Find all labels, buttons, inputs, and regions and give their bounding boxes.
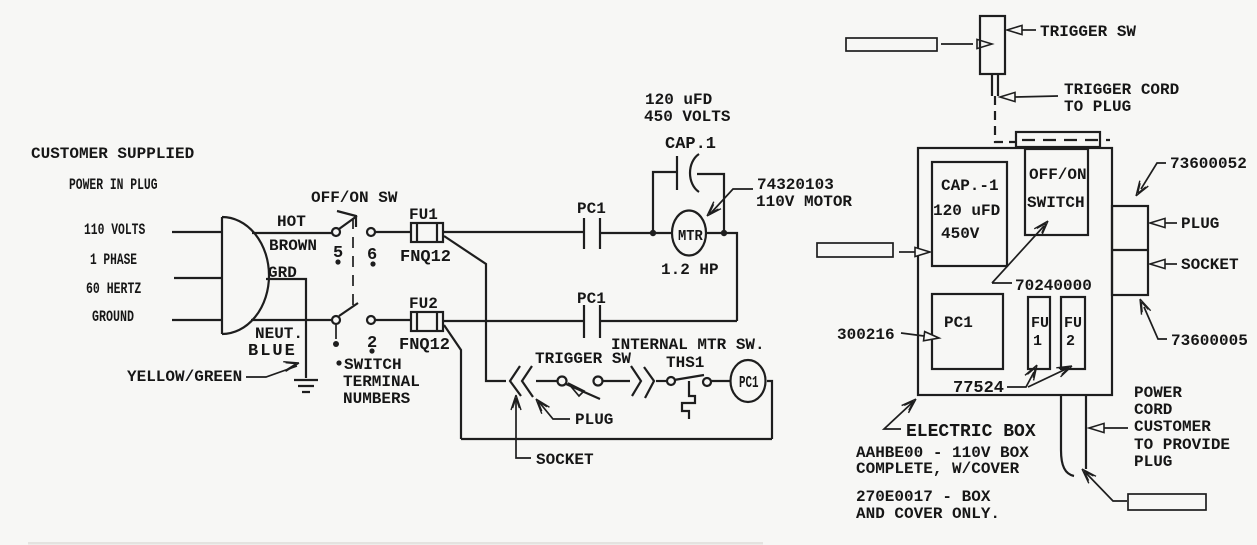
off/on switch box	[1025, 149, 1088, 235]
thermal element THS1	[682, 381, 695, 419]
wire GRD from plug down to ground	[266, 279, 306, 378]
leader SOCKET arrow	[516, 400, 531, 458]
conduit at box top	[1016, 132, 1100, 147]
leader 300216 to pc1 box	[901, 333, 924, 336]
svg-text:OFF/ON: OFF/ON	[1029, 166, 1087, 184]
leader PLUG arrow	[539, 402, 570, 419]
blank reference bar left	[817, 243, 893, 257]
leader bar to trigger switch	[941, 43, 973, 45]
svg-text:74320103: 74320103	[757, 176, 834, 194]
power cord left line	[1061, 395, 1074, 476]
leader TRIGGER SW label	[1007, 25, 1022, 34]
leader bottom bar to cord	[1086, 473, 1127, 501]
svg-text:CUSTOMER: CUSTOMER	[1134, 418, 1211, 436]
scan artifact band	[28, 542, 763, 545]
svg-text:POWER: POWER	[1134, 384, 1182, 402]
switch S1b blade	[339, 303, 358, 316]
wire PC1 lower to return	[600, 320, 737, 322]
svg-text:THS1: THS1	[666, 354, 704, 372]
switch S1a pole HOT circles	[332, 228, 340, 236]
connector plug chevrons	[631, 366, 654, 398]
wire 110V to plug	[172, 231, 222, 233]
node junction left of motor	[650, 230, 656, 236]
pc1 box	[932, 294, 1003, 369]
switch S1b pole NEUT circles	[332, 316, 340, 324]
wire FU2 to PC1 lower row	[443, 320, 584, 322]
leader 77524 to fuses	[1007, 369, 1066, 387]
capacitor PC1 top plates	[584, 218, 600, 249]
trigger cord dashed	[995, 96, 1016, 142]
switch mechanical link dashed	[352, 218, 354, 312]
wire THS1 to PC1	[711, 380, 731, 382]
svg-text:SWITCH: SWITCH	[344, 356, 402, 374]
svg-text:TRIGGER SW: TRIGGER SW	[1040, 23, 1136, 41]
leader 73600005	[1144, 307, 1167, 339]
svg-text:FU: FU	[1031, 315, 1049, 332]
power cord right line	[1085, 395, 1087, 469]
capacitor box CAP.-1	[932, 162, 1007, 266]
conduit dashed centerline	[1022, 139, 1110, 141]
fuse box FU1	[1028, 297, 1050, 369]
svg-text:TERMINAL: TERMINAL	[343, 373, 420, 391]
terminal dot 1	[335, 325, 337, 339]
blank reference bar bottom	[1128, 494, 1206, 510]
svg-text:PC1: PC1	[739, 374, 759, 393]
plug P1 customer power-in plug (D shape)	[222, 217, 269, 334]
leader PLUG right	[1150, 218, 1165, 227]
svg-text:60 HERTZ: 60 HERTZ	[86, 280, 141, 298]
svg-text:CAP.1: CAP.1	[665, 135, 716, 154]
fuse FU1	[411, 223, 443, 242]
leader 70240000 to switch	[992, 226, 1044, 283]
svg-text:TO PROVIDE: TO PROVIDE	[1134, 436, 1230, 454]
capacitor CAP.1 curved plate	[690, 154, 699, 192]
plug/socket block on box right	[1112, 206, 1148, 295]
svg-text:SWITCH: SWITCH	[1027, 194, 1085, 212]
plug/socket divider	[1112, 249, 1148, 251]
capacitor PC1 lower plates	[584, 305, 600, 338]
svg-text:HOT: HOT	[277, 213, 306, 231]
blank reference bar top	[846, 38, 937, 51]
wire CAP.1 right leg	[697, 174, 724, 232]
svg-text:BROWN: BROWN	[269, 237, 317, 255]
svg-text:FNQ12: FNQ12	[400, 248, 451, 267]
svg-text:PC1: PC1	[577, 290, 606, 308]
svg-text:TO PLUG: TO PLUG	[1064, 98, 1131, 116]
svg-text:73600005: 73600005	[1171, 332, 1248, 350]
svg-text:SOCKET: SOCKET	[536, 451, 594, 469]
trigger switch circles	[558, 377, 567, 386]
terminal dot 5	[335, 259, 340, 264]
trigger switch TRIGGER SW body	[980, 16, 1005, 74]
leader 73600052	[1141, 163, 1166, 189]
svg-text:TRIGGER CORD: TRIGGER CORD	[1064, 81, 1179, 99]
svg-text:120 uFD: 120 uFD	[933, 202, 1000, 220]
svg-text:POWER IN PLUG: POWER IN PLUG	[69, 176, 158, 194]
wire bottom rail	[461, 438, 772, 440]
wire HOT from plug to switch	[252, 232, 332, 234]
note SWITCH TERMINAL NUMBERS	[336, 360, 341, 365]
wire NEUT from plug to switch	[251, 319, 332, 321]
svg-text:CAP.-1: CAP.-1	[941, 177, 999, 195]
svg-text:73600052: 73600052	[1170, 155, 1247, 173]
svg-text:450V: 450V	[941, 225, 980, 243]
leader TRIGGER CORD arrow	[1000, 92, 1015, 101]
svg-text:GROUND: GROUND	[92, 308, 134, 326]
thermal switch THS1 circles	[667, 377, 675, 385]
wire ground to plug	[172, 319, 222, 321]
svg-text:OFF/ON SW: OFF/ON SW	[311, 189, 398, 207]
wire trigger to plug chevrons	[603, 380, 630, 382]
fuse FU2	[411, 312, 443, 331]
motor MTR circle	[672, 211, 706, 256]
switch S1a blade	[337, 211, 357, 229]
svg-text:77524: 77524	[953, 379, 1004, 398]
fuse box FU2	[1061, 297, 1085, 369]
terminal dot 6	[370, 261, 375, 266]
svg-text:FU2: FU2	[409, 295, 438, 313]
svg-text:1.2 HP: 1.2 HP	[661, 261, 719, 279]
wire 60Hz to plug	[174, 277, 222, 279]
wire CAP.1 left leg	[653, 172, 676, 232]
svg-text:PLUG: PLUG	[575, 411, 613, 429]
wire branch FU1 to trigger row	[444, 236, 506, 381]
svg-text:PC1: PC1	[944, 314, 973, 332]
connector socket chevrons	[510, 366, 533, 397]
svg-text:SOCKET: SOCKET	[1181, 256, 1239, 274]
electric box outline	[918, 148, 1112, 395]
svg-text:2: 2	[1066, 333, 1075, 350]
wire PC1 to bottom rail	[767, 381, 772, 439]
svg-text:FU: FU	[1064, 315, 1082, 332]
svg-text:AND COVER ONLY.: AND COVER ONLY.	[856, 505, 1000, 523]
trigger switch blade	[566, 384, 600, 399]
svg-text:PC1: PC1	[577, 200, 606, 218]
terminal dot 2	[369, 348, 374, 353]
svg-text:YELLOW/GREEN: YELLOW/GREEN	[127, 368, 242, 386]
svg-text:NEUT.: NEUT.	[255, 325, 303, 343]
wire FU1 to PC1 top row	[443, 231, 584, 233]
leader bar to cap box	[899, 251, 915, 253]
svg-text:270E0017 - BOX: 270E0017 - BOX	[856, 488, 991, 506]
svg-text:110 VOLTS: 110 VOLTS	[84, 221, 145, 239]
node junction right of motor	[721, 230, 727, 236]
svg-text:FU1: FU1	[409, 206, 438, 224]
capacitor CAP.1 straight plate	[676, 156, 678, 190]
wire chevron to trigger switch	[536, 380, 558, 382]
svg-text:ELECTRIC BOX: ELECTRIC BOX	[906, 422, 1036, 442]
svg-text:MTR: MTR	[678, 229, 703, 246]
leader POWER CORD arrow	[1089, 423, 1104, 432]
svg-text:NUMBERS: NUMBERS	[343, 390, 411, 408]
svg-text:70240000: 70240000	[1015, 277, 1092, 295]
svg-text:1: 1	[1033, 333, 1042, 350]
wire PC1 to motor	[600, 232, 673, 234]
leader ELECTRIC BOX	[884, 402, 913, 429]
leader yellow/green arrow	[246, 366, 297, 377]
svg-text:CORD: CORD	[1134, 401, 1172, 419]
leader SOCKET right	[1150, 259, 1165, 268]
svg-text:1 PHASE: 1 PHASE	[90, 252, 137, 269]
svg-text:FNQ12: FNQ12	[399, 336, 450, 355]
svg-text:120 uFD: 120 uFD	[645, 91, 712, 109]
wire switch to FU1	[375, 231, 411, 233]
wire switch to FU2	[375, 319, 411, 321]
svg-text:110V MOTOR: 110V MOTOR	[756, 193, 852, 211]
wire motor right to return	[706, 233, 737, 321]
wire chevron to THS1	[656, 380, 667, 382]
svg-text:INTERNAL MTR SW.: INTERNAL MTR SW.	[611, 336, 765, 354]
wire branch FU2 to bottom rail	[444, 325, 461, 439]
svg-text:BLUE: BLUE	[248, 342, 297, 361]
svg-text:PLUG: PLUG	[1134, 453, 1172, 471]
PC1 circle component	[731, 360, 766, 402]
thermal switch THS1 blade	[674, 375, 704, 380]
svg-text:PLUG: PLUG	[1181, 215, 1219, 233]
svg-text:CUSTOMER SUPPLIED: CUSTOMER SUPPLIED	[31, 145, 194, 163]
trigger cord wires	[992, 74, 998, 96]
leader arrow to motor	[710, 189, 753, 214]
svg-text:300216: 300216	[837, 326, 895, 344]
svg-text:450 VOLTS: 450 VOLTS	[644, 108, 731, 126]
ground symbol	[294, 380, 318, 392]
svg-text:COMPLETE, W/COVER: COMPLETE, W/COVER	[856, 460, 1020, 478]
